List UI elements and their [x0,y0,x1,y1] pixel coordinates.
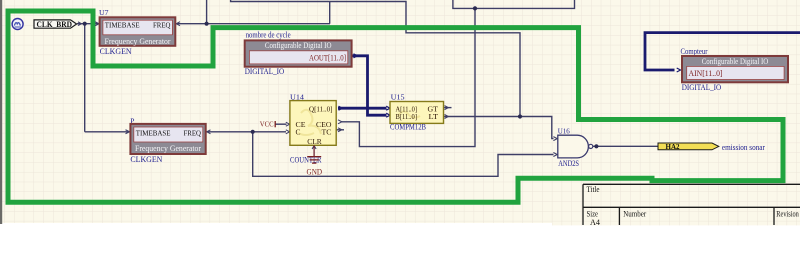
svg-text:VCC: VCC [260,119,274,128]
svg-text:U15: U15 [391,92,405,101]
junction at clock node [251,130,255,134]
AND gate U16 (AND2S) [558,126,593,168]
svg-text:TIMEBASE: TIMEBASE [105,20,140,29]
pin arrow U15 A[11..0] [386,106,390,110]
wire: clock branch to AND input 2 [253,132,554,177]
bus: to Compteur AIN [645,33,800,70]
pin arrow AOUT[11..0] [354,54,358,58]
svg-text:Q[11..0]: Q[11..0] [309,104,333,113]
pin arrow U14 TC [338,128,342,132]
net label CLK_BRD (port tag) [34,20,77,29]
svg-text:Frequency Generator: Frequency Generator [135,144,201,153]
digital IO block U_DIGITAL_IO (nombre de cycle) [245,30,352,76]
svg-text:LT: LT [429,112,439,121]
svg-text:Configurable Digital IO: Configurable Digital IO [265,41,332,50]
svg-text:CLR: CLR [307,137,322,146]
svg-text:Number: Number [623,209,646,218]
svg-text:A4: A4 [590,218,600,227]
svg-text:HA2: HA2 [666,143,681,151]
junction at U16 output [594,144,598,148]
wire: GT stub [444,107,452,109]
svg-text:Size: Size [587,209,599,218]
pin arrow U16 input 1 [553,137,557,141]
wire: to second CLKGEN TIMEBASE input [85,131,130,133]
wire: U7 FREQ output run [175,23,330,25]
svg-text:CLKGEN: CLKGEN [130,155,162,164]
wire: up from FREQ junction off sheet top [206,0,208,24]
sheet connector symbol (blue circle logo) [12,19,23,30]
svg-text:DIGITAL_IO: DIGITAL_IO [245,67,285,76]
svg-text:emission sonar: emission sonar [722,143,765,152]
junction at LT node [518,114,522,118]
junction at CLK_BRD node [83,22,87,26]
svg-text:CLK_BRD: CLK_BRD [37,20,73,29]
pin arrow U14 Q[11..0] [339,106,343,110]
pin arrow AIN[11..0] [677,68,681,72]
wire: top loop exiting sheet top [453,0,575,8]
pin arrow U14 C [286,130,290,134]
svg-text:COMPM12B: COMPM12B [390,122,426,131]
svg-text:U16: U16 [558,126,570,135]
svg-text:FREQ: FREQ [153,20,171,29]
chevron at CLK_BRD tip [78,22,82,26]
svg-text:B[11..0]: B[11..0] [396,112,418,121]
frequency generator U7 (CLKGEN) [99,8,175,56]
svg-text:Title: Title [587,185,600,194]
svg-text:nombre de cycle: nombre de cycle [246,30,291,39]
wire: riser x=329.7 to top run [329,2,331,24]
title block [583,184,800,225]
counter U14 (COUNTER) [290,92,336,164]
pin arrow P TIMEBASE [126,130,130,134]
pin arrow U7 TIMEBASE [95,22,99,26]
wire: AND output to HA2 [593,145,658,147]
svg-text:AND2S: AND2S [558,159,579,168]
pin arrow U14 CE [286,122,290,126]
pin arrow U14 CLR [312,146,316,149]
pin arrow U16 input 2 [553,153,557,157]
pin arrow U14 CEO [338,120,342,124]
junction at U7 FREQ node [205,22,209,26]
svg-text:AOUT[11..0]: AOUT[11..0] [309,54,346,63]
bus: AOUT to counter Q / comparator A,B [338,56,387,115]
pin arrow U7 FREQ [176,22,180,26]
green highlight loop wire [8,11,783,202]
comparator U15 (COMPM12B) [390,92,444,131]
svg-text:TIMEBASE: TIMEBASE [136,128,171,137]
svg-text:U7: U7 [99,8,109,17]
wire: CLKGEN2 FREQ to counter C [206,131,286,133]
junction on top loop [473,6,477,10]
svg-text:Revision: Revision [776,209,799,218]
ground [307,145,323,176]
net label HA2 (flag) [658,143,765,152]
wire: staircase from top edge to LT junction [231,0,520,117]
wire: LT to AND input 1 [444,117,554,139]
pin arrow U15 GT [445,106,449,110]
power port VCC [260,119,275,128]
wire: CEO to top loop [341,8,475,146]
sheet left border [0,0,2,224]
svg-text:AIN[11..0]: AIN[11..0] [689,69,723,78]
svg-text:FREQ: FREQ [184,128,202,137]
svg-text:TC: TC [322,128,332,137]
svg-text:C: C [296,128,301,137]
pin arrow U15 B[11..0] [386,113,390,117]
wire: vertical from CLK_BRD junction down [84,24,86,132]
digital IO block DIGITAL_IO (Compteur) [681,47,789,92]
wire: TC stub [336,129,344,131]
svg-text:CLKGEN: CLKGEN [100,47,132,56]
pin arrow P FREQ [207,130,211,134]
svg-text:DIGITAL_IO: DIGITAL_IO [682,83,722,92]
wire: CLK_BRD to U7 TIMEBASE input [77,23,99,25]
svg-text:Compteur: Compteur [681,47,708,56]
svg-text:Configurable Digital IO: Configurable Digital IO [702,57,769,66]
svg-text:GND: GND [307,168,323,177]
wire: VCC to CE [276,123,287,125]
svg-text:Frequency Generator: Frequency Generator [105,37,171,46]
pin arrow U15 LT [445,115,449,119]
frequency generator P (CLKGEN) [130,116,206,164]
